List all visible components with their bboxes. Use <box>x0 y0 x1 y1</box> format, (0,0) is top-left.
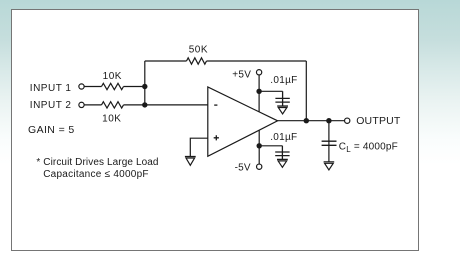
value label 10K (R1) <box>103 71 122 82</box>
svg-text:-5V: -5V <box>235 162 251 173</box>
resistor R1 10K <box>102 83 124 89</box>
resistor R3 50K <box>187 58 207 64</box>
node INPUT 1 label <box>30 83 72 94</box>
terminal INPUT 1 <box>79 84 84 89</box>
svg-text:INPUT 1: INPUT 1 <box>30 83 72 94</box>
resistor R2 10K <box>102 102 124 108</box>
wire +5V to op-amp V+ <box>258 75 260 112</box>
wire node A to node B <box>144 87 146 105</box>
wire feedback down to output node <box>305 61 307 121</box>
ground (C2) <box>277 159 288 167</box>
wire op-amp plus input to ground <box>190 138 208 156</box>
junction node V- <box>257 143 262 148</box>
svg-text:.01µF: .01µF <box>270 75 297 86</box>
note GAIN = 5 <box>28 124 75 136</box>
svg-text:GAIN = 5: GAIN = 5 <box>28 124 75 136</box>
value label CL = 4000pF <box>339 142 398 154</box>
wire node A up to feedback rail <box>144 61 146 87</box>
note Circuit Drives Large Load <box>36 157 158 168</box>
junction node feedback/output <box>304 118 309 123</box>
wire V+ node to C1 <box>259 90 283 92</box>
ground (C1) <box>277 106 288 114</box>
pin label minus (inverting input) <box>214 104 217 106</box>
node -5V label <box>235 162 251 173</box>
svg-text:.01µF: .01µF <box>270 132 297 143</box>
svg-text:* Circuit Drives Large Load: * Circuit Drives Large Load <box>36 157 158 168</box>
wire INPUT1 to R1 <box>84 86 101 88</box>
ground (CL) <box>324 162 335 170</box>
note Capacitance limit <box>43 169 149 180</box>
capacitor C1 .01uF <box>275 91 289 106</box>
node INPUT 2 label <box>30 100 72 111</box>
junction node CL/output <box>326 118 331 123</box>
terminal OUTPUT <box>345 118 350 123</box>
wire feedback rail right segment <box>207 60 307 62</box>
svg-text:OUTPUT: OUTPUT <box>356 115 401 127</box>
wire R2 to node B <box>124 104 145 106</box>
value label .01uF (C2) <box>270 132 297 143</box>
ground (op-amp plus input) <box>185 157 196 166</box>
svg-text:+5V: +5V <box>232 70 251 81</box>
capacitor CL 4000pF <box>322 141 337 145</box>
wire -5V to op-amp V- <box>258 130 260 164</box>
svg-text:INPUT 2: INPUT 2 <box>30 100 72 111</box>
wire INPUT2 to R2 <box>84 104 101 106</box>
wire R1 to node A <box>124 86 145 88</box>
svg-text:Capacitance ≤ 4000pF: Capacitance ≤ 4000pF <box>43 169 149 180</box>
value label .01uF (C1) <box>270 75 297 86</box>
wire node B to op-amp inverting input <box>145 104 208 106</box>
value label 50K (R3) <box>189 44 208 55</box>
terminal -5V <box>257 164 262 169</box>
op-amp U1 <box>208 87 278 156</box>
wire feedback rail left segment <box>145 60 187 62</box>
svg-text:CL = 4000pF: CL = 4000pF <box>339 142 398 154</box>
junction node V+ <box>256 89 261 94</box>
junction node A <box>142 84 147 89</box>
value label 10K (R2) <box>102 113 121 124</box>
wire V- node to C2 <box>259 145 282 147</box>
terminal +5V <box>256 70 261 75</box>
wire op-amp output to OUTPUT terminal <box>278 120 345 122</box>
junction node B <box>142 102 147 107</box>
wire output node to CL <box>328 121 330 162</box>
capacitor C2 .01uF <box>275 146 289 160</box>
node +5V label <box>232 70 251 81</box>
svg-text:10K: 10K <box>103 71 122 82</box>
svg-text:50K: 50K <box>189 44 208 55</box>
pin label plus (non-inverting input) <box>214 135 219 140</box>
node OUTPUT label <box>356 115 401 127</box>
terminal INPUT 2 <box>79 102 84 107</box>
svg-text:10K: 10K <box>102 113 121 124</box>
